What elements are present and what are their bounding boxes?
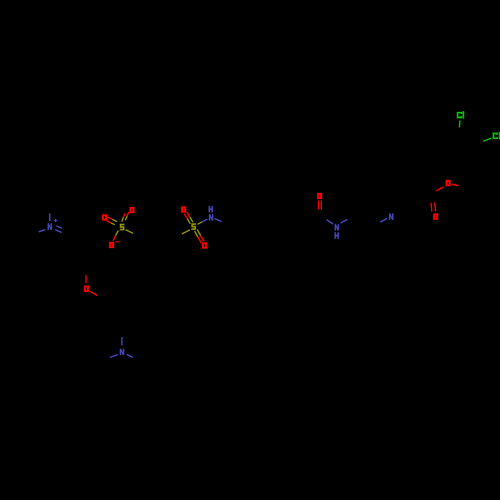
wire ester C=O line2 [435, 202, 436, 211]
wire S2-N3 [198, 222, 203, 225]
wire O-ether downright [90, 291, 97, 295]
node N2 amine N [120, 349, 124, 355]
node N4 amide N [335, 224, 339, 230]
node N3 sulfonamide N [209, 214, 213, 220]
wire S2=O down line1 [195, 231, 198, 237]
wire N2 left [110, 355, 118, 358]
wire N5-C left [380, 218, 387, 222]
node N1 quinolinium N+ [48, 224, 52, 230]
node O8 ester O [446, 180, 451, 186]
wire amide C=O line2 [320, 201, 322, 210]
node S1 sulfonate S [120, 224, 124, 230]
wire S1-C right [126, 230, 133, 233]
wire N1-CH3 [49, 213, 51, 221]
node O9 ester carbonyl O [433, 214, 438, 220]
wire S2-C left [182, 230, 190, 234]
wire S1=O topright line2 [127, 212, 129, 216]
wire N1=C double lower [55, 230, 62, 233]
wire ester C=O line1 [430, 203, 433, 212]
node O6 sulfonamide O down [202, 242, 207, 248]
node O7 amide O [317, 193, 322, 199]
node N4 H [335, 232, 339, 238]
node Cl1 [457, 112, 462, 118]
wire N2 right [127, 354, 133, 357]
node N5 amine N [389, 214, 393, 220]
wire ester O-C [436, 187, 443, 191]
node O5 sulfonamide O up [181, 206, 186, 212]
node N3 H [209, 206, 213, 212]
node O1 sulfonate O left [102, 214, 107, 220]
wire amide C=O line1 [317, 201, 319, 210]
wire S2=O up line1 [187, 212, 190, 217]
node O4 ether O [84, 286, 89, 292]
wire S1=O left line1 [108, 217, 113, 219]
node O2 sulfonate O topright [130, 207, 135, 213]
wire O-ether up [85, 275, 87, 283]
wire S1=O left line2 [107, 221, 111, 223]
wire N4-C right [340, 220, 347, 224]
wire N2 up [121, 337, 123, 345]
wire N3-C right [215, 218, 222, 221]
wire S1=O topright line1 [123, 213, 125, 217]
wire N1=C double upper [56, 226, 62, 228]
node Cl2 [493, 133, 498, 139]
wire S1-Ominus [116, 231, 119, 236]
wire S2=O up line2 [184, 214, 187, 219]
wire amide C-N4 [327, 220, 334, 224]
wire N1-C ring left [39, 230, 46, 232]
wire Cl1-C [458, 121, 461, 128]
wire S2=O down line2 [197, 230, 200, 236]
wire ester O-CH2 [452, 184, 459, 185]
node O3 sulfonate O minus [109, 242, 114, 248]
node S2 sulfonamide S [192, 223, 196, 229]
wire Cl2-C [483, 138, 491, 141]
